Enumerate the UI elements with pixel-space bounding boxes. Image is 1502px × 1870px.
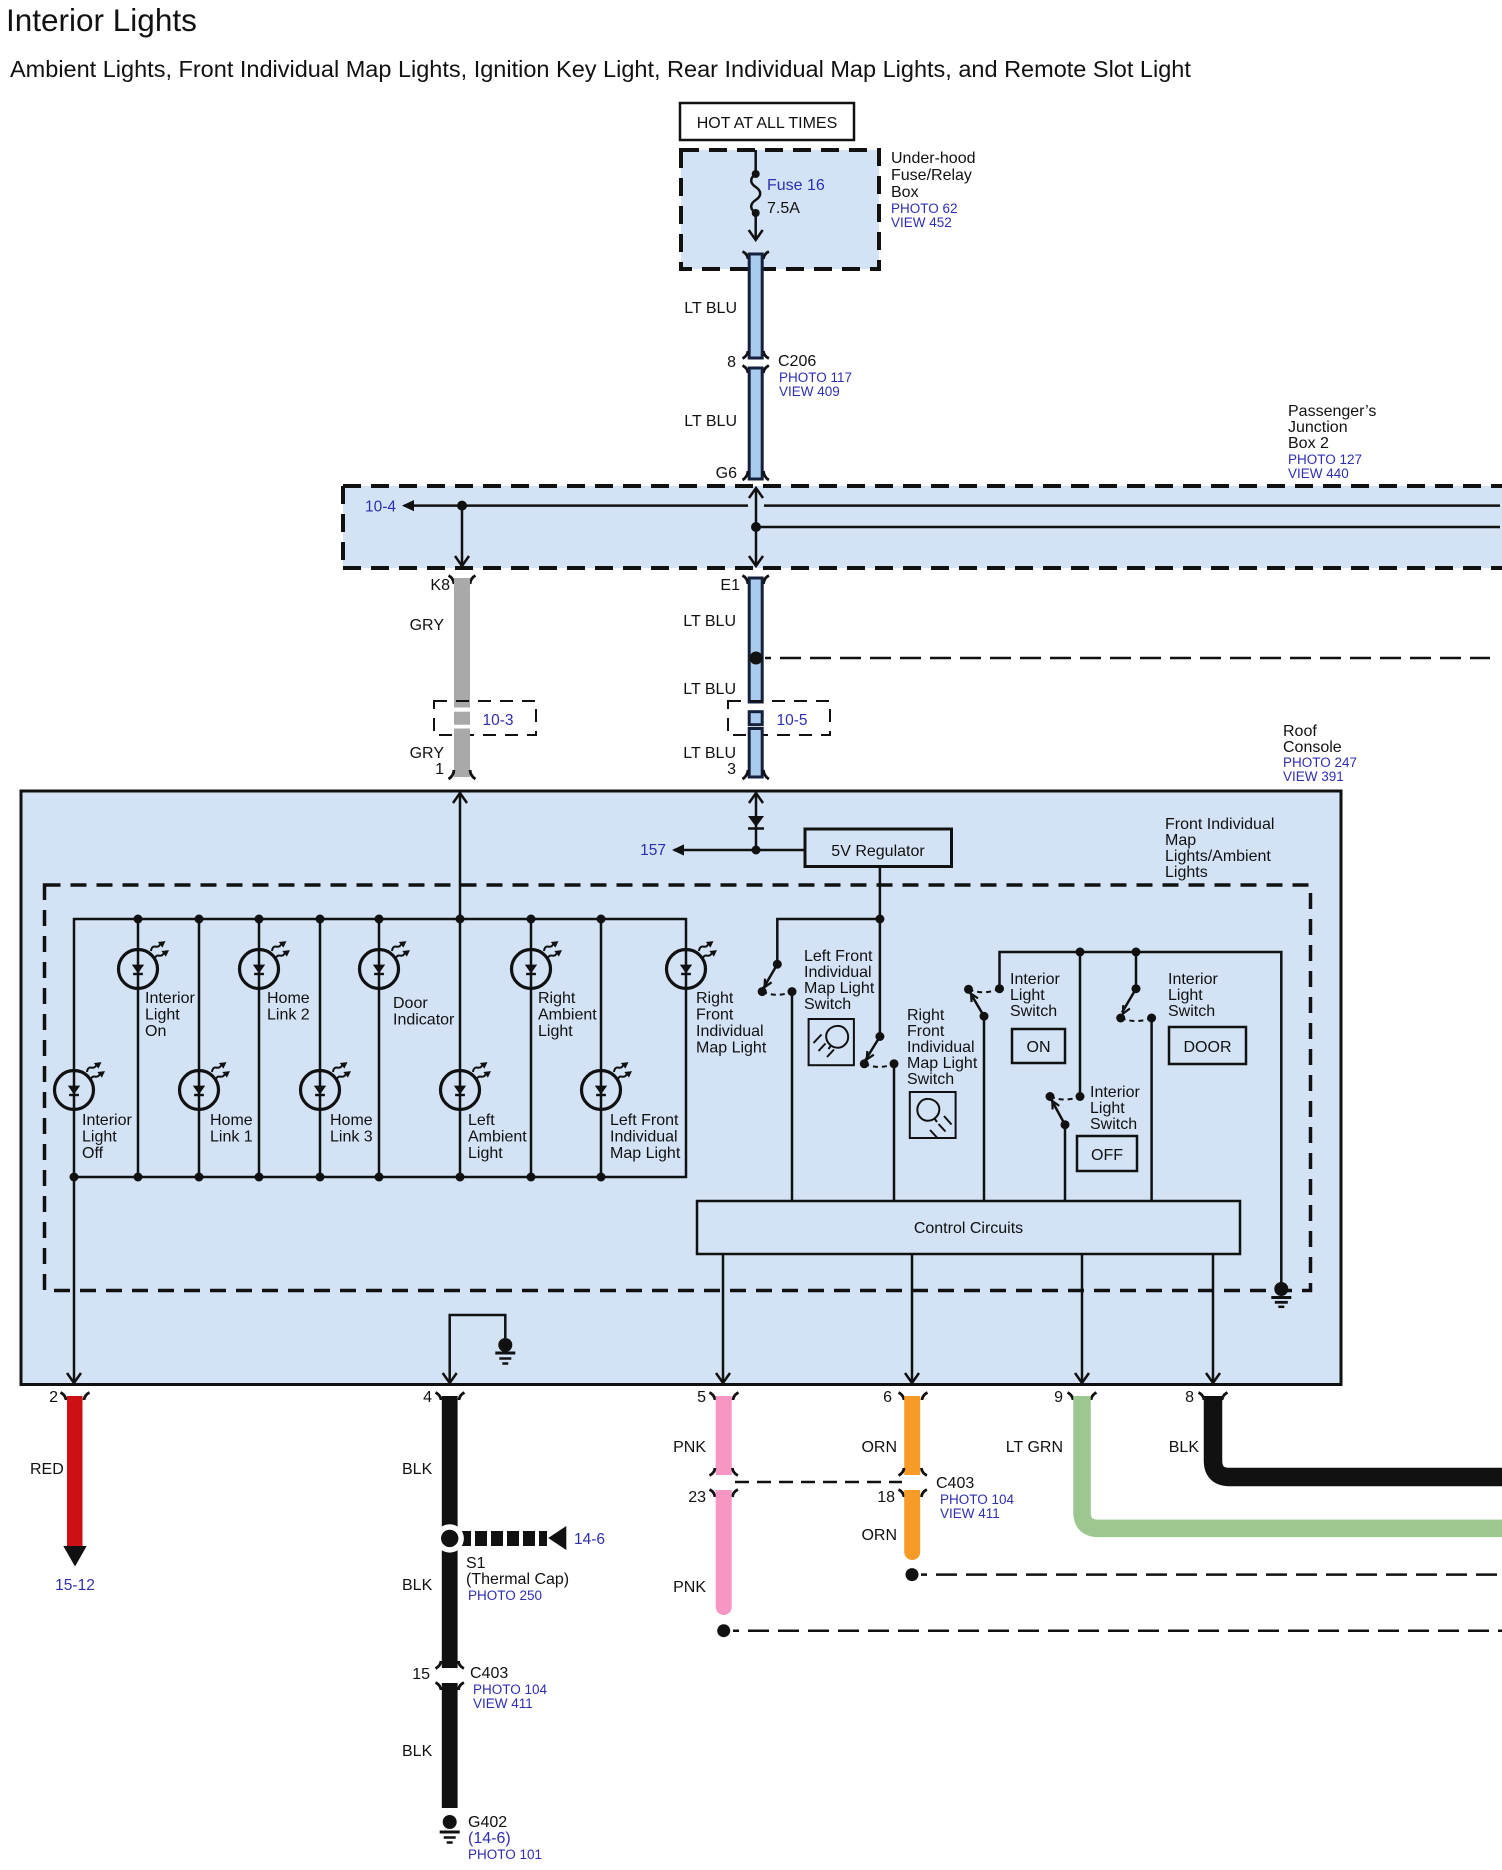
wire GRY upper — [454, 578, 470, 708]
diode on pin3 feed — [748, 816, 764, 827]
svg-text:Left Front: Left Front — [804, 948, 873, 965]
LED home link 3 — [301, 1059, 354, 1109]
wire pin4 internal ground loop — [450, 1315, 506, 1383]
svg-text:157: 157 — [640, 842, 666, 859]
wire LT BLU below E1 — [749, 578, 762, 702]
svg-text:Light: Light — [1010, 987, 1045, 1004]
svg-text:8: 8 — [727, 354, 736, 371]
svg-text:Map Light: Map Light — [907, 1055, 978, 1072]
wire RED pin 2 — [67, 1396, 83, 1546]
wire LED branch x460 — [459, 919, 462, 1177]
ground inside module box — [1274, 1282, 1288, 1296]
svg-text:Fuse/Relay: Fuse/Relay — [891, 167, 972, 184]
svg-text:On: On — [145, 1023, 166, 1040]
svg-text:7.5A: 7.5A — [767, 200, 800, 217]
svg-text:Home: Home — [210, 1112, 253, 1129]
switch right front individual map light — [875, 1032, 884, 1041]
svg-text:VIEW 409: VIEW 409 — [779, 384, 840, 399]
net 10-4 bus line — [404, 504, 748, 507]
svg-text:Console: Console — [1283, 739, 1342, 756]
terminal cup pin 8 — [1199, 1393, 1228, 1401]
svg-text:1: 1 — [435, 761, 444, 778]
svg-text:RED: RED — [30, 1461, 64, 1478]
wire LED branch x379 — [378, 919, 381, 1177]
terminal G6 cup — [743, 471, 769, 480]
svg-text:Light: Light — [145, 1007, 180, 1024]
svg-text:Switch: Switch — [907, 1071, 954, 1088]
terminal K8 — [449, 576, 476, 585]
connector cup at fuse box output — [743, 252, 769, 260]
svg-text:BLK: BLK — [402, 1577, 433, 1594]
svg-text:E1: E1 — [720, 577, 740, 594]
svg-text:LT BLU: LT BLU — [684, 300, 737, 317]
svg-text:HOT AT ALL TIMES: HOT AT ALL TIMES — [697, 115, 838, 132]
dashed module box — [45, 885, 1311, 1291]
wire control to pin 9 — [1081, 1254, 1084, 1383]
wire pin1 to LED bus — [459, 793, 462, 919]
svg-text:C206: C206 — [778, 353, 816, 370]
svg-text:PNK: PNK — [673, 1579, 706, 1596]
switch left front individual map light — [773, 960, 782, 969]
svg-text:10-3: 10-3 — [482, 712, 513, 729]
svg-text:4: 4 — [423, 1389, 432, 1406]
svg-text:Control Circuits: Control Circuits — [914, 1220, 1023, 1237]
wire PNK pin 5 lower — [716, 1490, 732, 1615]
svg-text:GRY: GRY — [410, 617, 445, 634]
svg-text:Map Light: Map Light — [696, 1040, 767, 1057]
svg-text:BLK: BLK — [402, 1743, 433, 1760]
svg-text:LT BLU: LT BLU — [684, 413, 737, 430]
svg-text:ORN: ORN — [861, 1527, 897, 1544]
svg-text:Right: Right — [538, 990, 576, 1007]
svg-text:Interior: Interior — [1168, 971, 1218, 988]
svg-text:Map Light: Map Light — [610, 1145, 681, 1162]
terminal cup pin 5 — [710, 1393, 739, 1401]
svg-text:Switch: Switch — [804, 996, 851, 1013]
svg-text:Individual: Individual — [610, 1129, 678, 1146]
svg-text:VIEW 411: VIEW 411 — [940, 1506, 1000, 1521]
svg-text:S1: S1 — [466, 1555, 486, 1572]
svg-text:Right: Right — [696, 990, 734, 1007]
under-hood fuse/relay box — [681, 150, 879, 269]
svg-text:15-12: 15-12 — [55, 1577, 95, 1594]
svg-text:23: 23 — [688, 1489, 706, 1506]
svg-text:Indicator: Indicator — [393, 1012, 455, 1029]
svg-text:Ambient: Ambient — [538, 1007, 597, 1024]
LED home link 1 — [180, 1059, 233, 1109]
svg-text:Box 2: Box 2 — [1288, 435, 1329, 452]
wire LED branch x320 — [319, 919, 322, 1177]
svg-text:6: 6 — [883, 1389, 892, 1406]
LED right ambient light — [512, 938, 565, 988]
node junction on E1 wire — [751, 522, 761, 532]
svg-text:G6: G6 — [716, 465, 737, 482]
svg-text:Interior: Interior — [1010, 971, 1060, 988]
svg-text:Left Front: Left Front — [610, 1112, 679, 1129]
svg-text:DOOR: DOOR — [1184, 1039, 1232, 1056]
svg-text:Switch: Switch — [1168, 1003, 1215, 1020]
svg-text:Light: Light — [82, 1129, 117, 1146]
LED right front individual map light — [667, 938, 720, 988]
svg-text:Interior: Interior — [145, 990, 195, 1007]
svg-text:VIEW 440: VIEW 440 — [1288, 466, 1349, 481]
svg-text:LT GRN: LT GRN — [1006, 1439, 1063, 1456]
wire LT BLU fuse box to C206 — [749, 254, 762, 358]
svg-text:(Thermal Cap): (Thermal Cap) — [466, 1571, 569, 1588]
svg-text:Interior: Interior — [82, 1112, 132, 1129]
svg-text:Ambient Lights, Front Individu: Ambient Lights, Front Individual Map Lig… — [10, 56, 1191, 82]
wire control to pin 5 — [722, 1254, 725, 1383]
svg-text:Individual: Individual — [907, 1039, 975, 1056]
terminal cup pin 4 — [436, 1393, 465, 1401]
svg-text:VIEW 391: VIEW 391 — [1283, 769, 1344, 784]
svg-text:Roof: Roof — [1283, 723, 1317, 740]
svg-text:ON: ON — [1027, 1039, 1051, 1056]
svg-text:9: 9 — [1054, 1389, 1063, 1406]
svg-text:8: 8 — [1185, 1389, 1194, 1406]
svg-text:Passenger’s: Passenger’s — [1288, 403, 1376, 420]
wire ORN pin 6 upper — [904, 1396, 920, 1475]
node on 10-4 line — [457, 501, 467, 511]
wire BLK pin 8 — [1213, 1396, 1502, 1477]
svg-text:LT BLU: LT BLU — [683, 745, 736, 762]
terminal cup pin 9 — [1068, 1393, 1097, 1401]
dashed link C403 — [735, 1481, 902, 1484]
lamp icon box right — [910, 1092, 956, 1138]
svg-text:PHOTO 117: PHOTO 117 — [779, 370, 852, 385]
LED home link 2 — [240, 938, 293, 988]
LED left front individual map light — [582, 1059, 635, 1109]
svg-text:C403: C403 — [936, 1475, 974, 1492]
bus line 2 going right — [756, 526, 1500, 529]
svg-text:Front: Front — [907, 1023, 945, 1040]
terminal cup pin 2 — [61, 1393, 90, 1401]
pin 1 entry arrow — [453, 793, 467, 803]
svg-text:Interior: Interior — [1090, 1084, 1140, 1101]
connector C403 pin 18 on ORN — [899, 1468, 927, 1476]
svg-text:ORN: ORN — [861, 1439, 897, 1456]
svg-text:10-4: 10-4 — [365, 499, 396, 516]
svg-text:BLK: BLK — [1169, 1439, 1200, 1456]
wire control to pin 6 — [911, 1254, 914, 1383]
svg-text:10-5: 10-5 — [776, 712, 807, 729]
svg-text:Front Individual: Front Individual — [1165, 816, 1274, 833]
wire K8 drop inside band — [461, 506, 464, 565]
node ORN to dashed — [906, 1568, 919, 1581]
connector 10-3 — [434, 701, 536, 735]
svg-text:Link 3: Link 3 — [330, 1129, 373, 1146]
svg-text:PHOTO 62: PHOTO 62 — [891, 201, 958, 216]
fuse Fuse 16 7.5A — [752, 170, 760, 178]
svg-text:PHOTO 127: PHOTO 127 — [1288, 452, 1362, 467]
svg-text:3: 3 — [727, 761, 736, 778]
svg-text:Home: Home — [267, 990, 310, 1007]
splice S1 thermal cap dashes — [461, 1531, 547, 1546]
svg-text:Map Light: Map Light — [804, 980, 875, 997]
wire control to pin 8 — [1212, 1254, 1215, 1383]
connector C403 pin 15 on BLK — [436, 1661, 464, 1669]
svg-text:Junction: Junction — [1288, 419, 1348, 436]
svg-text:PHOTO 250: PHOTO 250 — [468, 1588, 542, 1603]
connector 10-5 — [728, 701, 830, 735]
svg-text:OFF: OFF — [1091, 1147, 1123, 1164]
svg-text:Fuse 16: Fuse 16 — [767, 177, 825, 194]
node at regulator tap — [752, 846, 761, 855]
svg-text:Light: Light — [468, 1145, 503, 1162]
roof console box — [21, 791, 1341, 1385]
svg-text:Home: Home — [330, 1112, 373, 1129]
LED door indicator — [360, 938, 413, 988]
svg-text:18: 18 — [877, 1489, 895, 1506]
switch interior light OFF — [1079, 952, 1082, 1097]
svg-text:Switch: Switch — [1090, 1116, 1137, 1133]
wire BLK pin 4 upper — [442, 1396, 458, 1668]
svg-text:PHOTO 247: PHOTO 247 — [1283, 755, 1357, 770]
terminal cup pin 6 — [899, 1393, 928, 1401]
svg-text:PHOTO 104: PHOTO 104 — [473, 1682, 548, 1697]
svg-text:Box: Box — [891, 184, 919, 201]
LED interior light on — [119, 938, 172, 988]
svg-text:Light: Light — [1168, 987, 1203, 1004]
node PNK to dashed — [717, 1624, 730, 1637]
terminal E1 — [743, 576, 769, 585]
svg-text:Lights/Ambient: Lights/Ambient — [1165, 848, 1271, 865]
svg-text:C403: C403 — [470, 1665, 508, 1682]
wire BLK pin 4 lower — [442, 1683, 458, 1808]
wire LT BLU C206 to G6 — [749, 368, 762, 479]
svg-text:PHOTO 101: PHOTO 101 — [468, 1847, 542, 1862]
svg-text:Link 2: Link 2 — [267, 1007, 310, 1024]
ground inside box near pin 4 — [498, 1338, 512, 1352]
wire LED branch x138 — [137, 919, 140, 1177]
svg-text:Individual: Individual — [804, 964, 872, 981]
svg-text:Under-hood: Under-hood — [891, 150, 976, 167]
svg-text:Lights: Lights — [1165, 864, 1208, 881]
ground G402 — [443, 1815, 457, 1829]
wire E1 vertical inside band — [755, 488, 758, 565]
svg-text:Map: Map — [1165, 832, 1196, 849]
svg-text:Right: Right — [907, 1007, 945, 1024]
svg-text:14-6: 14-6 — [574, 1531, 605, 1548]
wire LED branch x601 — [600, 919, 603, 1177]
wire LED branch x199 — [198, 919, 201, 1177]
wire into fuse — [754, 150, 757, 174]
svg-text:5V Regulator: 5V Regulator — [831, 843, 925, 860]
connector C206 pin 8 — [743, 351, 769, 359]
svg-text:GRY: GRY — [410, 745, 445, 762]
switch interior light ON — [995, 984, 1004, 993]
interior light switch bus — [1000, 952, 1282, 1286]
svg-text:Individual: Individual — [696, 1023, 764, 1040]
svg-text:Off: Off — [82, 1145, 104, 1162]
svg-text:Light: Light — [1090, 1100, 1125, 1117]
svg-text:VIEW 411: VIEW 411 — [473, 1696, 533, 1711]
svg-text:Ambient: Ambient — [468, 1129, 527, 1146]
pin 3 entry arrow — [749, 793, 763, 803]
svg-text:PHOTO 104: PHOTO 104 — [940, 1492, 1015, 1507]
wire ORN pin 6 lower — [904, 1490, 920, 1560]
svg-text:Link 1: Link 1 — [210, 1129, 253, 1146]
wire regulator branch to map switches — [777, 919, 880, 964]
svg-text:2: 2 — [49, 1389, 58, 1406]
svg-text:Front: Front — [696, 1007, 734, 1024]
svg-text:15: 15 — [412, 1666, 430, 1683]
wire GRY lower — [454, 729, 470, 778]
svg-text:Switch: Switch — [1010, 1003, 1057, 1020]
svg-text:LT BLU: LT BLU — [683, 681, 736, 698]
passenger's junction box 2 band — [343, 486, 1502, 568]
wire LT BLU to pin 3 — [749, 729, 762, 778]
svg-text:Left: Left — [468, 1112, 495, 1129]
svg-text:5: 5 — [697, 1389, 706, 1406]
LED left ambient light — [441, 1059, 494, 1109]
svg-text:PNK: PNK — [673, 1439, 706, 1456]
LED array frame — [74, 919, 686, 1177]
svg-text:(14-6): (14-6) — [468, 1830, 511, 1847]
wire pin2 drop from LED bus — [73, 1177, 76, 1383]
5V regulator U1 — [805, 829, 952, 867]
control circuits block — [697, 1201, 1240, 1254]
wire LED branch x531 — [530, 919, 533, 1177]
label HOT AT ALL TIMES — [680, 103, 854, 140]
svg-text:LT BLU: LT BLU — [683, 613, 736, 630]
connector C403 pin 23 on PNK — [710, 1468, 738, 1476]
svg-text:K8: K8 — [430, 577, 450, 594]
net 157 — [674, 849, 805, 852]
svg-text:BLK: BLK — [402, 1461, 433, 1478]
switch interior light DOOR — [1135, 952, 1138, 989]
lamp icon box left — [809, 1019, 854, 1065]
svg-text:Light: Light — [538, 1023, 573, 1040]
svg-text:VIEW 452: VIEW 452 — [891, 215, 952, 230]
node on LT BLU with dashed branch — [750, 652, 763, 665]
junction dots top bus — [134, 915, 606, 924]
junction dots bottom bus — [70, 1173, 606, 1182]
svg-text:G402: G402 — [468, 1814, 507, 1831]
LED interior light off — [55, 1059, 108, 1109]
wire LED branch x259 — [258, 919, 261, 1177]
svg-text:Door: Door — [393, 995, 428, 1012]
wire PNK pin 5 upper — [716, 1396, 732, 1475]
svg-text:Interior Lights: Interior Lights — [6, 2, 197, 38]
wire LT GRN pin 9 — [1082, 1396, 1502, 1528]
